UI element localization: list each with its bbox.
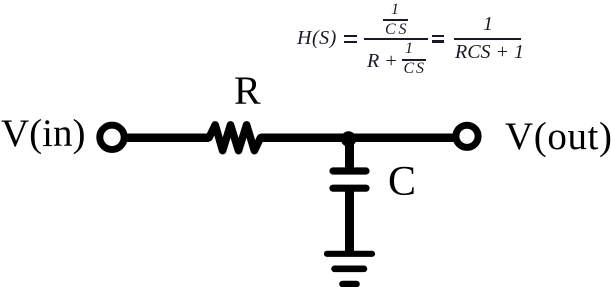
formula fraction1 denominator nested bar: [402, 59, 426, 61]
formula equals 1 top bar: [344, 35, 357, 38]
ground bar 1: [327, 251, 372, 257]
formula fraction1 main bar: [364, 38, 428, 40]
svg-text:V(in): V(in): [1, 112, 85, 155]
svg-text:R: R: [234, 68, 261, 113]
svg-text:V(out): V(out): [505, 115, 611, 158]
formula lhs H(S) =: [297, 27, 337, 50]
formula fraction2 main bar: [454, 38, 521, 40]
wire input to resistor: [127, 133, 210, 142]
ground bar 3: [343, 281, 357, 287]
svg-text:C: C: [388, 159, 416, 205]
formula fraction1 numerator nested bar: [383, 19, 408, 21]
junction node dot: [341, 131, 356, 146]
formula fraction2 numerator 1: [483, 13, 493, 36]
formula fraction1 denominator nested CS: [404, 60, 426, 78]
formula fraction1 denominator R +: [367, 50, 398, 73]
wire node to capacitor: [345, 143, 354, 171]
formula equals 2 bottom bar: [432, 40, 444, 43]
capacitor C bottom plate: [333, 185, 366, 192]
input terminal: [100, 125, 124, 149]
output terminal: [456, 125, 478, 147]
formula equals 1 bottom bar: [344, 41, 357, 44]
resistor R zigzag: [209, 125, 261, 151]
ground bar 2: [335, 265, 365, 272]
formula fraction1 numerator CS: [385, 21, 409, 39]
wire capacitor to ground: [345, 189, 354, 254]
wire resistor to output terminal: [261, 133, 454, 142]
capacitor C top plate: [333, 167, 366, 174]
formula fraction1 numerator nested 1: [391, 1, 399, 19]
formula fraction2 denominator RCS + 1: [455, 41, 524, 64]
formula fraction1 denominator nested 1: [405, 40, 413, 58]
formula equals 2 top bar: [432, 35, 444, 38]
